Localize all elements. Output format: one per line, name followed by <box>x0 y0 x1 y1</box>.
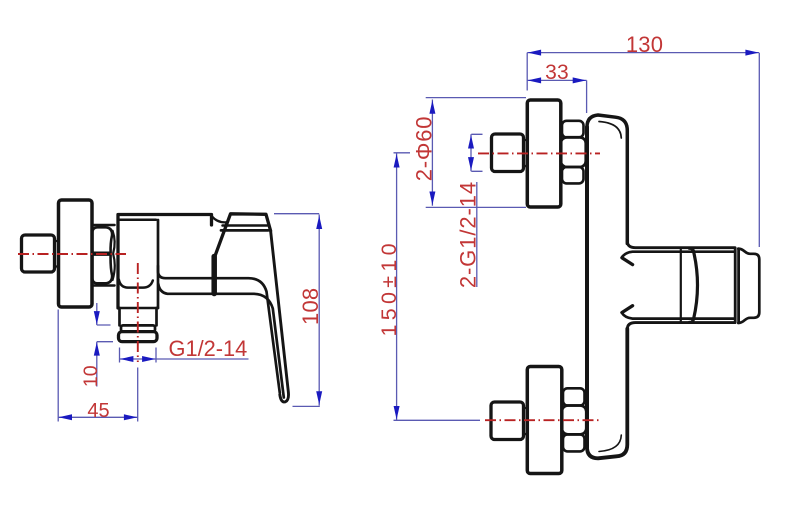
outlet ring band <box>121 325 155 331</box>
dim 10 ticks and line <box>97 303 113 387</box>
red dimension texts right view <box>377 32 663 337</box>
dim 45 extension lines <box>58 310 138 422</box>
svg-text:2-Φ60: 2-Φ60 <box>411 116 436 182</box>
svg-text:130: 130 <box>626 32 663 57</box>
dim 130 line + extensions <box>527 53 759 247</box>
inner contour top-right <box>599 122 621 139</box>
dim 108 extension lines <box>274 214 320 407</box>
inner vertical + underside line A sweeping into blade <box>158 220 280 393</box>
end cap <box>738 249 759 323</box>
body inner cap line <box>118 219 156 222</box>
body bottom line <box>118 307 158 310</box>
svg-text:G1/2-14: G1/2-14 <box>169 336 248 361</box>
cup dome arc <box>690 251 698 322</box>
bottom flare of handle horn <box>627 323 735 330</box>
wall union knob (left view) <box>22 235 55 272</box>
top union knob (front view) <box>492 134 524 172</box>
svg-text:45: 45 <box>87 400 109 422</box>
neck between knob and flange <box>55 241 59 267</box>
dim 33 line + extension <box>527 80 586 113</box>
bottom union knob (front view) <box>491 402 524 440</box>
wall flange disc (left view) <box>59 200 93 307</box>
red centerlines left view <box>18 254 138 362</box>
top hex nut <box>562 121 584 138</box>
top connector centerline <box>478 152 600 154</box>
outlet nut G1/2 <box>119 332 158 342</box>
vertical centerline (outlet axis) <box>137 263 139 362</box>
svg-text:10: 10 <box>80 365 102 387</box>
outlet middle section <box>120 308 157 325</box>
dim 2-phi60 line + extensions <box>426 98 526 208</box>
cup right rim <box>735 248 738 322</box>
svg-text:33: 33 <box>545 61 569 84</box>
knob thread dim line + ticks <box>471 134 483 171</box>
dim G1/2-14 ticks and leader line <box>120 348 249 363</box>
underside line B sweeping into blade <box>158 284 283 398</box>
arrowheads right view <box>394 50 759 420</box>
bottom flange disc <box>527 367 562 474</box>
cup left rim <box>680 249 682 323</box>
dim 45 line <box>58 416 138 418</box>
top flare of handle horn <box>627 241 735 248</box>
svg-text:150±10: 150±10 <box>377 239 401 336</box>
thick junction bar lever/body <box>211 257 217 294</box>
concave arc body-to-handle <box>212 216 227 222</box>
horizontal centerline (inlet axis) <box>18 253 126 255</box>
waist dip under cap <box>119 280 153 288</box>
bottom neck <box>524 408 528 434</box>
svg-text:108: 108 <box>298 288 323 325</box>
handle head parting lines <box>223 224 268 227</box>
arrowheads left view <box>59 216 323 421</box>
dim 150+-10 line + ticks <box>394 153 481 421</box>
inner contour bottom-right <box>599 435 621 452</box>
text underline for 2-G1/2-14 <box>476 182 478 287</box>
handle head (left view) <box>215 214 271 257</box>
bottom connector centerline <box>485 419 602 421</box>
body plate outline <box>587 115 627 244</box>
hex nut (left view) <box>92 225 115 286</box>
handle blade outer edge + tip <box>271 231 289 402</box>
body right edge down to outlet <box>157 266 160 308</box>
bottom hex nut <box>563 388 585 405</box>
red dimension texts left view <box>80 288 323 423</box>
top neck <box>524 140 528 166</box>
top flange disc <box>527 100 561 207</box>
svg-text:2-G1/2-14: 2-G1/2-14 <box>455 181 480 288</box>
dim 108 line <box>318 215 320 406</box>
valve body block (left view) <box>118 215 212 309</box>
red centerlines right view <box>478 153 602 420</box>
